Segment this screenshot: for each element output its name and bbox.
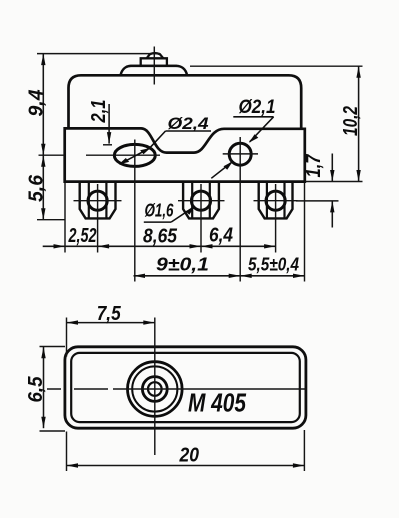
oval slot horizontal center line <box>39 154 161 156</box>
button stem <box>141 58 167 66</box>
dim 7,5 line <box>67 322 155 324</box>
dim 2,1 arrow <box>107 132 111 144</box>
svg-text:5,6: 5,6 <box>25 174 47 202</box>
label D1,6 arrowhead <box>186 206 195 215</box>
pin 2 center lines <box>178 184 225 253</box>
row A arrow into left edge <box>54 244 66 248</box>
svg-text:9,4: 9,4 <box>25 90 47 117</box>
label D1,6 shelf <box>144 221 171 223</box>
label D2,1 lower arrowhead <box>224 161 233 170</box>
dim 2,1 text <box>88 100 110 124</box>
dim 9,4 arrows <box>41 54 45 66</box>
extension line body left edge down <box>64 183 66 253</box>
dim 10,2 arrows <box>356 66 360 78</box>
pin 2 outline <box>183 182 219 219</box>
svg-text:7,5: 7,5 <box>97 303 122 325</box>
oval slot <box>114 144 155 166</box>
oval slot vertical center line <box>134 140 136 282</box>
button base top edge <box>130 65 178 67</box>
svg-text:8,65: 8,65 <box>143 226 178 248</box>
label D1,6 leader <box>171 207 194 222</box>
button base <box>121 66 188 75</box>
dim 6,5 extension lines <box>40 347 66 432</box>
dim 9,4 extension line top <box>37 53 160 55</box>
dim 6,5 line <box>43 347 45 428</box>
pin 3 center lines <box>254 184 298 253</box>
dim 10,2 line <box>358 66 360 181</box>
label D2,4 shelf <box>166 130 212 132</box>
row A arrows at pin2 center <box>190 244 202 248</box>
pin 2 hole <box>191 191 210 210</box>
dim 5,6 text <box>25 174 47 202</box>
body outline <box>65 128 305 181</box>
svg-text:5,5±0,4: 5,5±0,4 <box>248 254 299 274</box>
boss horizontal center line <box>47 388 307 390</box>
label D2,4 leader <box>120 131 166 164</box>
hole D2.1 <box>229 143 251 165</box>
label D2,1 leader <box>250 117 274 142</box>
cover outline <box>69 75 302 129</box>
dim 5,6 extension line bottom <box>37 219 65 221</box>
label D2,1 lower leader segment <box>211 162 232 178</box>
pin 1 outline <box>80 182 116 219</box>
hole D2.1 horizontal center line <box>223 153 258 155</box>
svg-text:1,7: 1,7 <box>303 154 325 178</box>
svg-text:Ø1,6: Ø1,6 <box>145 201 175 221</box>
button center line <box>153 47 155 85</box>
pin 1 center lines <box>74 184 122 253</box>
boss circle 3 <box>142 377 167 402</box>
dim 5,6 arrows <box>41 155 45 167</box>
pin 3 outline <box>259 182 293 219</box>
svg-text:M 405: M 405 <box>188 387 246 417</box>
pin 3 hole <box>266 191 285 210</box>
svg-text:2,52: 2,52 <box>68 225 97 247</box>
pin 1 hole <box>88 191 107 210</box>
dim 2,1 reference dash <box>103 144 112 146</box>
svg-text:9±0,1: 9±0,1 <box>156 254 209 274</box>
row A arrow at pin3 center <box>264 244 276 248</box>
dim 2,1 line <box>108 104 110 144</box>
pin 1 inner edges <box>89 182 107 219</box>
dim 1,7 lower arrow stem <box>331 201 333 228</box>
boss circle 2 <box>132 366 177 411</box>
dim 7,5 arrows <box>67 320 79 324</box>
dim 20 extension lines <box>67 430 305 471</box>
svg-text:20: 20 <box>179 444 199 466</box>
button dome <box>147 53 164 58</box>
boss circle outer <box>128 362 183 417</box>
label D2,1 shelf <box>233 116 273 118</box>
dim 20 line <box>67 465 305 467</box>
pin 3 inner edges <box>267 182 285 219</box>
row B arrow at oval center <box>134 274 146 278</box>
svg-text:Ø2,1: Ø2,1 <box>239 97 276 118</box>
base inner outline <box>71 353 300 422</box>
dim row A line <box>43 245 276 247</box>
dim 6,5 text <box>25 376 47 403</box>
dim 1,7 upper arrow stem <box>331 154 333 182</box>
row B arrows at hole center <box>229 274 241 278</box>
dim 9,4 line <box>42 54 44 156</box>
dim 10,2 extension line bottom <box>306 181 363 183</box>
boss circle inner <box>148 382 162 396</box>
svg-text:6,5: 6,5 <box>25 376 47 403</box>
dim row B line <box>134 275 305 277</box>
dim 1,7 extension line <box>296 200 339 202</box>
svg-text:6,4: 6,4 <box>209 225 233 247</box>
row A arrow at pin1 center <box>98 244 110 248</box>
dim 5,6 line <box>42 155 44 220</box>
label D2,4 arrowheads in slot <box>140 148 150 154</box>
dim 10,2 extension line top <box>190 65 363 67</box>
pin 2 inner edges <box>192 182 210 219</box>
base outer outline <box>65 347 306 428</box>
dim 1,7 text <box>303 154 325 178</box>
svg-text:2,1: 2,1 <box>88 100 110 124</box>
boss vertical center line <box>154 318 156 456</box>
label D2,1 upper arrowhead <box>249 134 258 143</box>
dim 9,4 text <box>25 90 47 117</box>
dim 7,5 left extension <box>66 318 68 357</box>
svg-text:Ø2,4: Ø2,4 <box>168 114 210 133</box>
dim 6,5 arrows <box>41 347 45 359</box>
hole D2.1 vertical center line <box>239 137 241 282</box>
extension line body right edge down <box>304 183 306 282</box>
dim 10,2 text <box>340 106 362 136</box>
row B arrow at right edge <box>293 274 305 278</box>
dim 20 arrows <box>67 463 79 467</box>
svg-text:10,2: 10,2 <box>340 106 362 136</box>
